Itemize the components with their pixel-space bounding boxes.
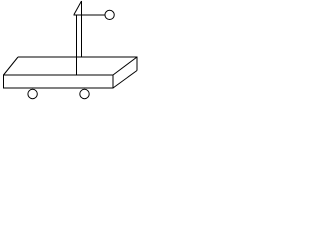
mast right edge [81, 1, 83, 57]
right wheel [80, 89, 89, 98]
cart right face back vertical edge [136, 57, 138, 71]
horizontal rod from flag to ball [74, 14, 106, 16]
cart top face left slant edge [4, 57, 19, 75]
ball at right end of rod [105, 10, 114, 19]
cart top face right slant edge [113, 57, 137, 75]
cart front face [4, 75, 114, 88]
cart top face back edge [18, 56, 138, 58]
left wheel [28, 89, 37, 98]
flag diagonal edge [74, 1, 82, 15]
cart right face bottom slant edge [113, 71, 137, 89]
mast left edge [76, 15, 78, 76]
